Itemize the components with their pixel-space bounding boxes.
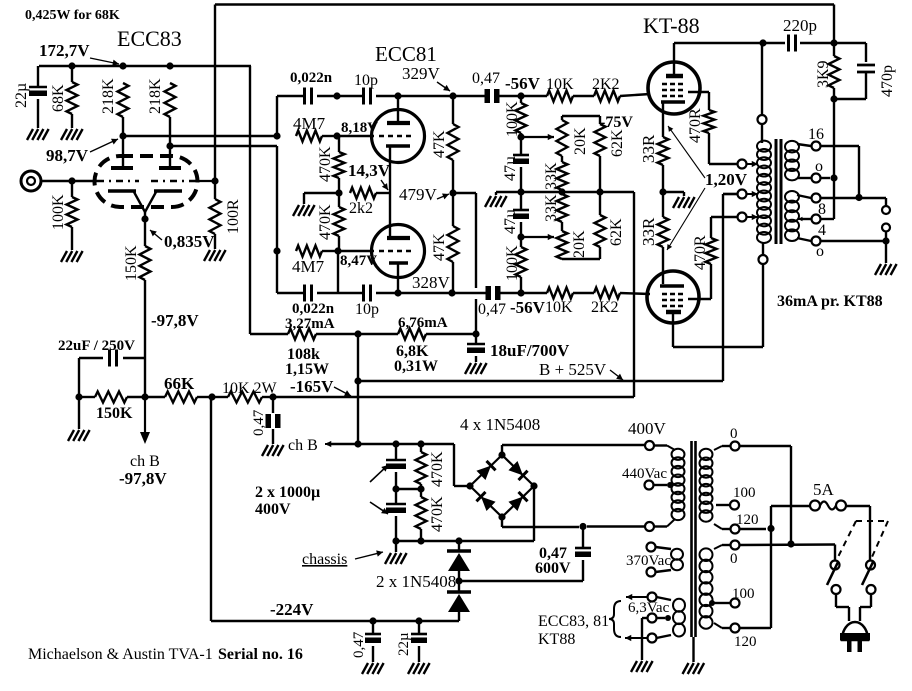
wire 470K chain to bottom rail: [337, 251, 339, 293]
diode bridge D2 (top-right arm): [508, 461, 527, 480]
svg-text:10K 2W: 10K 2W: [222, 380, 278, 397]
terminal UL tap lower with arrow: [738, 213, 759, 222]
node 108k/6,8K junction: [354, 330, 361, 337]
fuse 5A: [771, 501, 846, 511]
node 0/switch junction: [787, 540, 794, 547]
resistor 33K (lower): [543, 192, 568, 222]
terminal 100 (upper secondary): [716, 485, 756, 510]
label 329V with leader: [402, 64, 450, 91]
svg-text:100K: 100K: [504, 101, 521, 137]
arrow to upper 1000µ: [370, 465, 388, 482]
svg-text:0,022n: 0,022n: [290, 70, 333, 86]
capacitor 220p: [783, 16, 817, 52]
wire 0 tap to feedback: [821, 174, 838, 181]
wire KT88 plate line y=43: [674, 43, 866, 62]
switch blade right: [862, 562, 873, 585]
svg-text:KT88: KT88: [538, 631, 575, 648]
node 1000µ mid junction: [392, 485, 424, 492]
resistor 100R: [210, 181, 243, 249]
wire 172,7V supply rail y=66: [39, 62, 251, 69]
node bias wiper junction (upper): [517, 92, 524, 140]
capacitor 0,47 (bias filter): [351, 621, 381, 662]
resistor 470K bleeder (lower): [416, 489, 447, 541]
svg-text:20K: 20K: [571, 230, 588, 258]
KT88 lower cathode: [660, 284, 684, 288]
arrow to upper 20K pot wiper: [521, 134, 554, 140]
resistor 2K2 (upper): [573, 76, 650, 102]
svg-text:2 x 1N5408: 2 x 1N5408: [376, 572, 456, 591]
svg-text:10p: 10p: [354, 72, 378, 89]
node 4M7 lower left junction: [273, 247, 280, 254]
node cathode junction: [141, 215, 148, 222]
resistor 100K grid leak: [50, 181, 78, 250]
svg-text:0: 0: [730, 426, 738, 442]
mains secondary upper winding: [700, 446, 723, 529]
wire ch B riser x=358: [357, 334, 359, 444]
terminal 0 (upper secondary): [722, 426, 740, 451]
resistor 100K (upper bias): [504, 96, 527, 137]
terminal OPT primary bottom: [759, 242, 768, 264]
svg-text:68K: 68K: [50, 84, 67, 112]
wire screen to UL tap (lower): [711, 216, 737, 218]
svg-text:22µ: 22µ: [13, 83, 30, 108]
svg-text:0,835V: 0,835V: [164, 232, 215, 251]
node plate/OPT junction: [759, 39, 766, 46]
diode bridge D3 (bottom-left arm): [476, 492, 495, 511]
label -75V: [600, 114, 633, 131]
svg-text:33R: 33R: [639, 134, 658, 163]
ground mains core: [683, 663, 705, 674]
label ch B / -97,8V (bottom of divider): [119, 453, 167, 488]
input jack J1: [21, 171, 97, 191]
capacitor 47µ (upper): [502, 137, 529, 192]
switch linkage (dashed): [838, 521, 888, 557]
ground under 22µ bias: [408, 663, 430, 674]
svg-text:5A: 5A: [813, 480, 835, 499]
mains primary HV winding: [654, 446, 685, 527]
svg-text:328V: 328V: [412, 273, 451, 292]
tube ECC81 upper triode: [372, 110, 425, 163]
resistor 100K (lower bias): [504, 237, 527, 293]
ECC83 triode2 grid (dash-dot): [151, 180, 215, 182]
node lower bias rail junction: [517, 289, 524, 296]
svg-text:8,47V: 8,47V: [340, 253, 377, 269]
wire global feedback top rail: [215, 5, 834, 182]
arrow ch B down from cathode line: [140, 397, 150, 444]
label chassis with arrow: [302, 550, 383, 568]
svg-text:0,47: 0,47: [351, 631, 367, 658]
label 370Vac: [626, 553, 671, 569]
label -56V (lower): [510, 298, 546, 317]
ground under left branch: [68, 430, 90, 441]
switch contact right-lower: [867, 585, 876, 594]
node lower cathode rail junction: [394, 289, 401, 296]
KT88 upper top-cap plate: [666, 43, 683, 76]
wire switch to plug left: [836, 594, 849, 621]
resistor 218K (left): [100, 78, 129, 136]
svg-text:-97,8V: -97,8V: [119, 469, 167, 488]
wire B+ 525V line: [357, 194, 737, 381]
ground under 0,47: [262, 445, 284, 456]
label 98,7V with leader arrow: [46, 139, 118, 165]
KT88 lower top-cap plate: [666, 312, 681, 347]
node 22µ bottom junction: [415, 617, 422, 624]
svg-text:16: 16: [808, 126, 824, 143]
terminal 100 (lower secondary): [709, 586, 755, 608]
label -56V (upper): [505, 74, 541, 93]
svg-text:0,47: 0,47: [251, 409, 267, 436]
potentiometer 20K (lower): [557, 222, 589, 259]
svg-text:4M7: 4M7: [292, 257, 325, 276]
ECC81 upper grid dashes: [379, 135, 412, 138]
wire bridge bottom to 370V side: [502, 517, 645, 527]
resistor 6,8K 0,31W: [358, 329, 476, 376]
wire 0-upper to switch line: [740, 446, 792, 544]
svg-text:4 x 1N5408: 4 x 1N5408: [460, 415, 540, 434]
ECC81 upper plate: [387, 96, 410, 123]
capacitor 10p (upper): [354, 72, 378, 105]
resistor 4M7 (upper): [293, 114, 337, 142]
capacitor 18uF/700V: [467, 334, 570, 362]
OPT core: [776, 139, 781, 244]
label 3,27mA: [285, 316, 335, 332]
arrow to lower 20K pot wiper: [521, 234, 554, 240]
svg-text:0,425W for 68K: 0,425W for 68K: [25, 8, 120, 23]
svg-text:470p: 470p: [879, 65, 896, 97]
wire -165V line: [273, 396, 634, 398]
label ch B with left arrow: [288, 437, 352, 454]
wire 479V feed (down to 6,8K node, hops rail): [453, 193, 476, 333]
ECC81 lower plate: [387, 236, 410, 240]
bridge rectifier outline: [470, 455, 534, 517]
terminal 370Vac (upper): [647, 543, 672, 552]
resistor 470K (upper): [317, 136, 345, 193]
svg-text:66K: 66K: [164, 374, 195, 393]
svg-text:4M7: 4M7: [293, 114, 326, 133]
wire fuse riser x=771: [770, 506, 772, 628]
svg-text:33R: 33R: [639, 217, 658, 246]
wire ch B / DC minus line y=444: [327, 444, 470, 486]
ground chassis: [385, 553, 407, 564]
svg-text:100K: 100K: [504, 245, 521, 281]
resistor 47K (upper): [431, 96, 459, 193]
label 8,18V: [341, 120, 378, 136]
node 33K mid junction: [558, 188, 565, 195]
ground at KT88 cathodes: [673, 197, 695, 208]
node 4M7 left junction: [273, 132, 280, 139]
wire ECC81 lower rail y=293: [277, 251, 521, 293]
wire pot bottom to 62K bottom: [562, 258, 600, 260]
svg-text:10p: 10p: [355, 301, 379, 318]
terminal speaker output -: [882, 224, 890, 232]
label B + 525V with arrow: [539, 360, 623, 380]
svg-text:Michaelson & Austin TVA-1: Michaelson & Austin TVA-1: [28, 646, 213, 663]
ECC81 upper cathode: [386, 146, 410, 237]
wire -224V line: [211, 397, 459, 621]
wire ECC81 upper rail y=96: [277, 95, 521, 97]
node 33R cathode junction: [659, 188, 666, 195]
svg-text:100: 100: [732, 586, 755, 602]
resistor 2k2: [349, 188, 390, 218]
tube KT88 lower envelope: [647, 271, 699, 323]
wire 120-upper to fuse riser: [740, 528, 767, 530]
svg-text:18uF/700V: 18uF/700V: [490, 341, 570, 360]
resistor 10K (upper): [521, 76, 574, 102]
svg-text:470K: 470K: [429, 451, 446, 487]
KT88 upper grid mesh: [662, 84, 686, 96]
capacitor 0,47 (lower coupling): [478, 286, 506, 318]
terminal 6,3Vac top with arrow: [626, 593, 671, 602]
svg-text:KT-88: KT-88: [643, 13, 700, 38]
wire bias ground rail y=192: [496, 192, 634, 195]
terminal UL tap center (B+) with arrow: [723, 190, 758, 199]
node bridge right vertex: [530, 482, 537, 489]
node rectifier minus junction: [455, 537, 462, 544]
mains plug: [840, 622, 870, 652]
svg-text:ch B: ch B: [288, 437, 318, 454]
node 150K bottom junction: [141, 393, 148, 400]
svg-text:14,3V: 14,3V: [348, 161, 391, 180]
svg-text:33K: 33K: [543, 162, 560, 190]
arrow to lower 1000µ: [370, 502, 388, 514]
wire OPT primary top feed: [761, 43, 763, 115]
terminal UL tap upper with arrow: [738, 160, 759, 169]
terminal 370Vac (lower): [647, 568, 672, 577]
wire grid1 ECC81: [337, 135, 374, 137]
svg-text:600V: 600V: [535, 560, 571, 577]
svg-text:1,20V: 1,20V: [705, 170, 748, 189]
wire bridge DC+ output: [459, 486, 534, 541]
label -224V: [270, 600, 314, 619]
resistor 68K: [50, 66, 78, 128]
node 470K junction (2k2 tap): [335, 189, 342, 196]
ground 6,3Vac center: [631, 661, 653, 672]
svg-text:Serial no. 16: Serial no. 16: [218, 646, 303, 663]
ground under 22µ: [27, 129, 49, 140]
wire -165V riser x=634: [633, 192, 635, 397]
ECC81 lower grid dashes: [379, 250, 412, 253]
wire 0 tap (lower) to ground: [821, 232, 890, 263]
svg-text:0,31W: 0,31W: [394, 358, 438, 375]
ECC83 cathodes joined to common stem: [108, 191, 182, 219]
svg-text:22uF / 250V: 22uF / 250V: [58, 338, 135, 354]
svg-text:100K: 100K: [50, 194, 67, 230]
svg-text:2K2: 2K2: [592, 76, 620, 93]
capacitor 470p: [834, 65, 896, 99]
terminal 8 ohm tap: [812, 194, 827, 219]
svg-text:33K: 33K: [543, 194, 560, 222]
switch blade left: [827, 562, 838, 585]
node 1000u cap top junction: [392, 440, 399, 447]
terminal HV winding bottom: [645, 522, 654, 531]
label 1,20V with leaders: [667, 126, 748, 250]
svg-text:6,76mA: 6,76mA: [398, 315, 448, 331]
svg-text:470K: 470K: [429, 496, 446, 532]
label 5A: [813, 480, 835, 499]
wire 0-lower to switch: [740, 545, 836, 561]
wire lower plate to OPT bottom: [673, 264, 763, 347]
svg-text:120: 120: [736, 512, 759, 528]
wire 4 tap to feedback line: [821, 218, 835, 220]
KT88 lower grid mesh: [662, 294, 686, 306]
ECC83 triode1 plate: [111, 136, 133, 168]
wire 120-lower to riser: [740, 627, 772, 629]
label 479V with leader: [399, 185, 449, 204]
switch contact right-upper: [866, 561, 875, 570]
capacitor 1000µ (lower): [386, 489, 406, 541]
capacitor 22µ (bias filter): [396, 621, 427, 662]
node 4M7 lower right junction: [334, 247, 341, 254]
resistor 470R (upper screen): [687, 108, 715, 164]
svg-text:120: 120: [734, 634, 757, 650]
tube ECC83 envelope (dashed stadium): [95, 156, 198, 207]
node plate2 junction: [166, 142, 173, 149]
svg-text:0,47: 0,47: [472, 70, 500, 87]
svg-text:-75V: -75V: [600, 114, 633, 131]
svg-text:329V: 329V: [402, 64, 441, 83]
ECC81 lower cathode: [389, 263, 408, 293]
svg-text:47µ: 47µ: [502, 209, 519, 234]
svg-text:-224V: -224V: [270, 600, 314, 619]
OPT secondary lower winding: [785, 191, 811, 241]
capacitor 0,47 (upper coupling): [472, 70, 500, 103]
node 4M7 right junction: [333, 132, 340, 139]
svg-text:ECC83: ECC83: [117, 26, 182, 51]
switch contact left-lower: [832, 585, 841, 594]
label 4 x 1N5408: [460, 415, 540, 434]
KT88 lower screen lead: [688, 264, 711, 299]
tube label KT-88: [643, 13, 700, 38]
terminal speaker output +: [882, 206, 890, 214]
wire screen to UL tap (upper): [709, 163, 737, 165]
wire feed from 172,7V rail down: [249, 66, 251, 334]
mains secondary lower winding: [700, 545, 723, 629]
node 47K top junction: [449, 92, 456, 99]
svg-text:2k2: 2k2: [349, 200, 373, 217]
svg-text:470K: 470K: [317, 204, 334, 240]
svg-text:47K: 47K: [431, 233, 448, 261]
node 0,022n/10p junction: [333, 92, 340, 99]
capacitor 0,022n (upper): [290, 70, 333, 105]
capacitor 0,47 600V: [459, 527, 591, 581]
label ECC83, 81 / KT88: [538, 613, 609, 648]
tube label ECC83: [117, 26, 182, 51]
svg-text:400V: 400V: [255, 501, 291, 518]
resistor 470K (lower): [317, 193, 345, 251]
potentiometer 20K (upper): [557, 116, 590, 162]
svg-text:o: o: [816, 243, 824, 260]
resistor 150K (horizontal): [79, 392, 145, 423]
capacitor 1000µ (upper): [255, 444, 406, 518]
label 0,425W for 68K: [25, 8, 120, 23]
svg-text:0,022n: 0,022n: [292, 301, 335, 317]
wire plate2 to ECC81 lower network y=147: [170, 146, 277, 252]
node 16/8 junction: [855, 194, 862, 201]
resistor 470K bleeder (upper): [416, 444, 447, 489]
resistor 62K (lower): [595, 192, 626, 259]
svg-text:2K2: 2K2: [591, 299, 619, 316]
label 400V: [628, 419, 667, 438]
label -97,8V: [151, 311, 199, 330]
ground at 470K divider: [293, 205, 315, 216]
label 328V: [412, 273, 451, 292]
svg-text:220p: 220p: [783, 16, 817, 35]
capacitor 22µ input decoupling: [13, 66, 47, 128]
node 220p/3K9 junction: [830, 39, 837, 46]
svg-text:62K: 62K: [608, 218, 625, 246]
diode bridge D4 (bottom-right arm): [508, 492, 527, 511]
node 62K junction: [596, 188, 603, 195]
svg-text:470R: 470R: [687, 108, 704, 143]
svg-text:3K9: 3K9: [815, 60, 832, 88]
label 36mA pr. KT88: [777, 293, 883, 310]
wire 16 tap to selector: [821, 146, 860, 198]
svg-text:47K: 47K: [431, 130, 448, 158]
mains transformer core: [692, 441, 696, 662]
svg-text:440Vac: 440Vac: [622, 466, 667, 482]
KT88 upper screen lead: [688, 92, 709, 110]
svg-text:B + 525V: B + 525V: [539, 360, 607, 379]
winding 370Vac: [671, 549, 683, 571]
svg-text:218K: 218K: [100, 78, 117, 114]
terminal 16 ohm tap: [808, 126, 824, 151]
node 0,47 600V junction: [579, 523, 586, 530]
terminal OPT primary top: [758, 115, 767, 124]
terminal 6,3Vac center tap: [642, 614, 671, 661]
node -165V branch junction: [269, 393, 276, 400]
wire cap bottoms y=541: [392, 537, 459, 552]
resistor 33R (upper): [639, 114, 669, 192]
svg-text:-56V: -56V: [505, 74, 541, 93]
OPT secondary upper winding: [785, 141, 811, 181]
ground under 68K: [61, 129, 83, 140]
wire pot top to 62K top: [562, 115, 600, 117]
OPT primary winding: [757, 141, 771, 243]
label 14,3V with leader: [348, 161, 391, 190]
tube label ECC81: [375, 42, 437, 66]
label 0,835V with leader: [150, 230, 215, 251]
resistor 62K (upper): [595, 116, 627, 192]
svg-text:62K: 62K: [609, 129, 626, 157]
ground at speaker return: [875, 264, 897, 275]
label 440Vac: [622, 466, 667, 482]
wire upper-left corner: [276, 96, 278, 136]
label 6,76mA: [398, 315, 448, 331]
wire grid2 ECC81: [338, 250, 374, 252]
node upper plate rail junction: [394, 92, 401, 99]
wire into primary winding: [761, 124, 763, 143]
resistor 3K9: [815, 43, 840, 99]
label 172,7V with leader arrow: [39, 41, 119, 66]
ground at bias network: [485, 196, 507, 207]
resistor 4M7 (lower): [292, 246, 338, 277]
node bias ground junction: [517, 188, 524, 195]
node 98,7V junction: [119, 132, 126, 139]
terminal 4 ohm tap: [798, 215, 826, 240]
node bridge left vertex: [466, 482, 473, 489]
terminal 0 tap (lower): [812, 237, 825, 261]
svg-text:chassis: chassis: [302, 551, 347, 568]
svg-text:100R: 100R: [225, 199, 242, 234]
node bridge top vertex: [498, 451, 505, 458]
svg-text:370Vac: 370Vac: [626, 553, 671, 569]
node input/grid junction: [68, 177, 75, 184]
resistor 218K (right): [147, 78, 176, 146]
resistor 66K: [145, 374, 212, 403]
node 66K/10K junction: [208, 393, 215, 400]
svg-text:150K: 150K: [123, 245, 140, 281]
svg-text:-97,8V: -97,8V: [151, 311, 199, 330]
